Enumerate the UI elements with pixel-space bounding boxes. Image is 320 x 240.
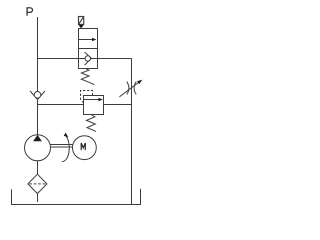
- wire: relief valve outlet to return line: [104, 104, 132, 106]
- spring of relief valve: [86, 115, 96, 132]
- solenoid actuator (box with diagonal): [79, 17, 84, 25]
- wire: branch to solenoid valve (upper horizontal): [38, 58, 79, 60]
- wire: pressure line from P down to check valve: [37, 17, 39, 92]
- wire: branch to relief valve (lower horizontal): [38, 104, 84, 106]
- wire: valve outlet to right return line: [98, 58, 132, 60]
- pilot line (dashed) of relief valve: [81, 91, 93, 103]
- tank (open reservoir): [12, 189, 141, 205]
- wire: filter stem into tank: [37, 194, 39, 202]
- return spring of solenoid valve: [81, 69, 94, 85]
- port P label: [27, 8, 32, 16]
- wire: right return line down to tank: [131, 59, 133, 205]
- solenoid plunger (filled triangle): [78, 25, 84, 29]
- pressure relief valve body: [84, 96, 104, 115]
- suction filter (diamond with dashed element): [28, 174, 47, 193]
- solenoid valve closed position: ball on seat: [79, 52, 98, 65]
- check valve (ball and seat) on pump line: [30, 91, 45, 100]
- drive shaft pump-motor (double line): [51, 144, 73, 146]
- adjustable throttle valve on return line: [119, 80, 142, 97]
- wire: line from check valve down to pump: [37, 100, 39, 135]
- wire: suction line pump to filter: [37, 161, 39, 174]
- electric motor M: [73, 136, 97, 160]
- pump (circle with filled outlet triangle): [25, 135, 51, 161]
- rotation direction arc with arrowhead: [62, 133, 69, 162]
- solenoid valve 2/2 body: open position box with through-arrow: [79, 29, 98, 69]
